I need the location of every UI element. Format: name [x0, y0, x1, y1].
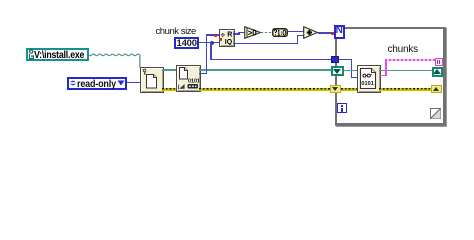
loop grow corner — [430, 108, 441, 119]
svg-text:>0: >0 — [248, 28, 258, 37]
right shift register (refnum) — [432, 67, 443, 78]
coercion dot on QR y input — [219, 38, 222, 41]
refnum wire read->SR — [379, 70, 433, 72]
error wire SR->read — [341, 88, 357, 91]
right shift register (error) — [431, 85, 442, 93]
enum glyph — [70, 80, 76, 86]
path constant glyph — [28, 49, 35, 60]
coercion dot on QR x input — [214, 34, 217, 37]
data wire read->tunnel (pink string) — [379, 75, 387, 77]
wire junction dot — [210, 41, 214, 45]
chunks label — [388, 44, 419, 55]
path constant text — [34, 50, 84, 61]
size wire gfs->QR (up) — [199, 73, 208, 75]
Add node U6 — [303, 26, 319, 39]
wire 1400 branch down to loop tunnel — [210, 42, 212, 60]
wire 1400 -> QR y input — [199, 42, 219, 44]
Read from Binary File node U7 — [357, 65, 381, 93]
error wire gfs->loop — [199, 88, 331, 91]
path constant V:\install.exe — [26, 48, 89, 62]
N count terminal — [334, 25, 345, 39]
R wire QR->greater-than — [233, 33, 239, 35]
tunnel: chunk size into loop — [331, 56, 339, 63]
for loop structure — [335, 27, 446, 127]
svg-text:R: R — [227, 31, 232, 38]
gfs node icon — [177, 66, 199, 90]
enum wire to open node — [127, 82, 140, 84]
i iteration terminal — [337, 103, 348, 113]
Open/Create/Replace File node U1 — [140, 67, 165, 93]
svg-text:0101: 0101 — [188, 78, 199, 84]
coercion dot on N — [331, 32, 334, 35]
IQ wire QR->add — [233, 43, 298, 45]
enum text — [77, 79, 116, 90]
Quotient & Remainder node U3 — [219, 29, 235, 48]
error wire read->SR — [379, 88, 432, 91]
Greater Than 0 node U4 — [244, 26, 262, 39]
Boolean To (0,1) node U5 — [272, 28, 288, 38]
wire add -> N — [318, 32, 335, 34]
wire tunnel -> read count input — [339, 59, 352, 61]
open node icon — [141, 68, 162, 90]
chunk size label — [156, 26, 196, 37]
refnum wire gfs->loop shift register — [199, 69, 332, 71]
coercion dot on add top input — [303, 29, 306, 32]
left shift register (error) — [330, 85, 341, 93]
left shift register (refnum) — [331, 66, 344, 76]
refnum wire open->gfs — [162, 69, 176, 71]
enum constant read-only — [67, 77, 127, 90]
path wire (squiggle) — [88, 48, 144, 72]
boolean wire — [261, 32, 273, 34]
numeric constant 1400 — [174, 37, 199, 49]
error wire open->gfs — [162, 88, 176, 91]
Get File Size node U2 — [176, 65, 201, 93]
refnum wire SR->read — [344, 70, 357, 72]
svg-text:0101: 0101 — [361, 81, 373, 87]
wire ?1:0 -> add — [288, 31, 305, 33]
enum dropdown arrow — [117, 80, 125, 86]
indexing tunnel chunks out — [435, 58, 443, 66]
svg-text:IQ: IQ — [224, 39, 232, 45]
